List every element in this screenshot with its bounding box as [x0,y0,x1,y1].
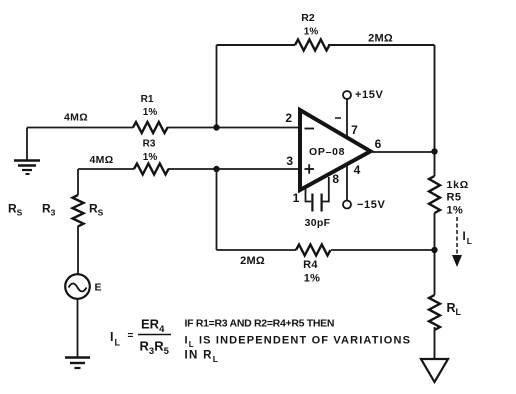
svg-text:IF R1=R3 AND R2=R4+R5 THEN: IF R1=R3 AND R2=R4+R5 THEN [185,318,335,330]
svg-text:R3: R3 [143,139,156,150]
wire source branch down from R3 wire [77,169,79,195]
capacitor C1 30pF [312,194,321,212]
wire non-inverting node to R4 [217,249,297,251]
wire source E to ground [77,299,79,357]
svg-text:4: 4 [354,163,361,177]
svg-text:R2: R2 [301,12,315,24]
wire vertical from top wire to inverting node [216,45,218,128]
svg-text:E: E [95,282,102,294]
ground (left earth symbol) [14,128,40,175]
pin 7 wire [346,99,348,137]
svg-text:1%: 1% [304,27,319,38]
svg-text:4MΩ: 4MΩ [64,112,88,124]
wire R1 to inverting input pin 2 [167,127,300,129]
terminal -15V [343,201,351,209]
svg-text:1%: 1% [447,205,464,217]
svg-text:=: = [128,331,134,342]
svg-text:1%: 1% [143,152,158,163]
ground (below source E) [65,358,90,369]
svg-text:2MΩ: 2MΩ [368,33,393,45]
resistor R5 [429,176,440,213]
wire non-inverting node down to R4 [216,169,218,250]
svg-text:1%: 1% [304,273,321,285]
resistor R2 [295,40,330,51]
ground (triangle at load) [421,359,448,382]
source E (AC generator) [65,274,90,299]
resistor R1 [133,122,167,133]
resistor R4 [296,245,331,256]
wire R3 left bend [78,168,134,170]
wire top feedback right segment [328,44,435,46]
pin 1 wire [306,188,312,202]
node inverting input junction [213,124,219,130]
wire RS to source E [77,226,79,274]
svg-text:3: 3 [286,154,293,168]
svg-text:OP–08: OP–08 [309,146,345,158]
svg-text:30pF: 30pF [305,217,331,229]
wire R3 to non-inverting input pin 3 [168,168,300,170]
svg-text:1%: 1% [143,107,158,118]
svg-text:1: 1 [293,191,300,205]
op-amp U1 OP-08 [300,110,371,190]
resistor RL [429,295,440,330]
svg-text:1kΩ: 1kΩ [447,179,470,191]
wire rail R5 to load node [434,213,436,295]
resistor R3 [134,164,168,175]
pin 4 wire [346,164,348,200]
svg-text:8: 8 [332,172,339,186]
node load junction [431,247,437,253]
svg-text:2MΩ: 2MΩ [240,255,265,267]
svg-text:6: 6 [375,137,382,151]
svg-text:7: 7 [351,123,358,137]
wire ground to R1 [27,127,133,129]
wire R4 to load node [331,249,435,251]
wire right rail upper [434,45,436,176]
svg-text:−15V: −15V [357,199,385,211]
resistor RS (source resistance, vertical) [73,195,84,226]
svg-text:R5: R5 [447,192,462,204]
svg-text:R4: R4 [303,259,318,271]
wire top feedback left segment [217,44,296,46]
svg-text:4MΩ: 4MΩ [90,154,114,166]
current arrow IL [452,217,462,267]
svg-text:2: 2 [285,111,292,125]
pin 8 wire [323,177,329,202]
wire op-amp output to rail [371,151,435,153]
node non-inverting input junction [213,166,219,172]
svg-text:R1: R1 [141,94,154,105]
formula IL = ER4/(R3R5) [110,317,171,358]
node output junction [431,148,437,154]
terminal +15V [343,91,351,99]
wire RL to chassis ground [434,327,436,359]
svg-text:+15V: +15V [355,89,383,101]
